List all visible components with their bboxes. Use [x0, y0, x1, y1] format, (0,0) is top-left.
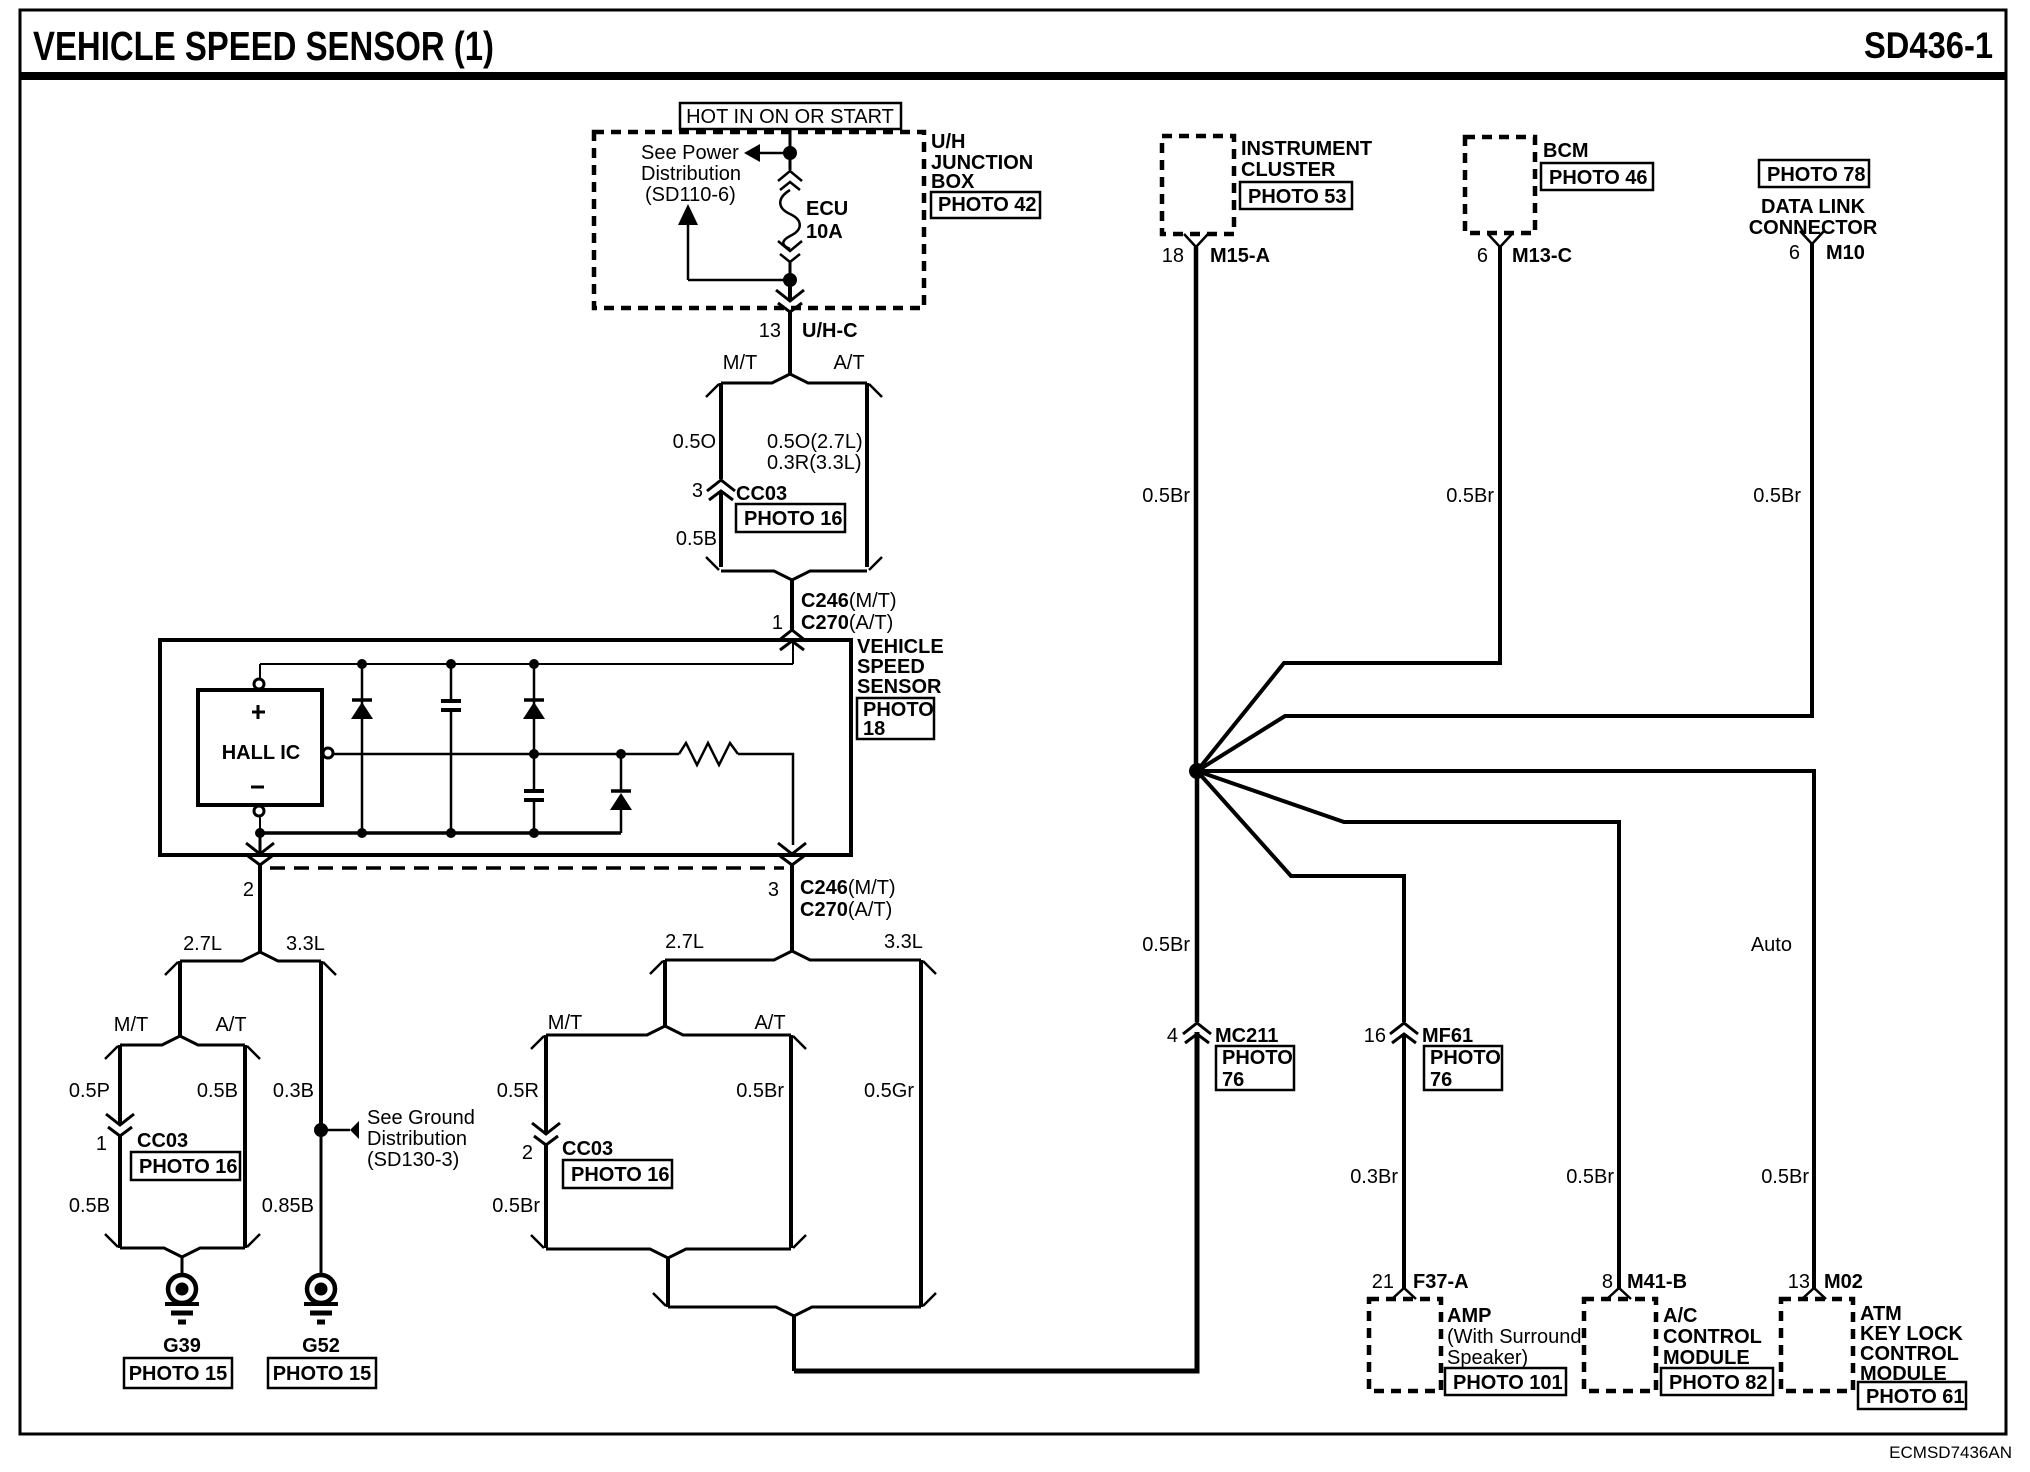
svg-text:See Ground: See Ground — [367, 1107, 475, 1129]
U/H junction box dashed outline — [594, 132, 924, 308]
svg-text:0.5Br: 0.5Br — [1566, 1166, 1614, 1188]
connector V F37-A — [1392, 1288, 1416, 1299]
merge M/T / A/T to connector 1 — [721, 571, 792, 580]
svg-text:M10: M10 — [1826, 242, 1865, 264]
svg-text:0.5O: 0.5O — [673, 431, 716, 453]
node bottom rail dot g — [357, 828, 367, 838]
svg-text:3: 3 — [692, 480, 703, 502]
wire M/T branch upper segment 0.5O — [719, 383, 723, 479]
node ground distribution dot — [314, 1123, 328, 1137]
svg-text:BCM: BCM — [1543, 140, 1589, 162]
svg-text:0.5Br: 0.5Br — [1753, 485, 1801, 507]
photo box PHOTO 76 (MF61) — [1424, 1046, 1502, 1090]
svg-text:0.5R: 0.5R — [497, 1080, 539, 1102]
wire sensor pin 3 down — [790, 865, 794, 951]
svg-text:PHOTO: PHOTO — [1222, 1047, 1293, 1069]
photo box PHOTO 101 — [1445, 1368, 1566, 1395]
connector V M13-C — [1488, 234, 1512, 247]
ATM key lock control module dashed box — [1781, 1299, 1853, 1391]
svg-text:0.5B: 0.5B — [676, 528, 717, 550]
internal bottom rail wire — [260, 831, 621, 835]
svg-text:A/T: A/T — [215, 1014, 246, 1036]
wire sensor pin 2 down — [258, 865, 262, 952]
wire U/H-C to M/T-A/T fork — [788, 312, 792, 374]
svg-text:C246(M/T): C246(M/T) — [801, 590, 897, 612]
svg-text:C270(A/T): C270(A/T) — [801, 612, 893, 634]
fork 2.7L / 3.3L (middle) — [665, 951, 792, 960]
fork M/T / A/T (left) — [120, 1036, 180, 1045]
capacitor C2 line upper — [533, 754, 536, 790]
svg-text:M41-B: M41-B — [1627, 1271, 1687, 1293]
svg-text:PHOTO 46: PHOTO 46 — [1549, 167, 1648, 189]
svg-text:0.5Br: 0.5Br — [492, 1195, 540, 1217]
wire M/T 0.5R segment — [544, 1035, 548, 1133]
svg-text:CONTROL: CONTROL — [1663, 1326, 1762, 1348]
diode D3 symbol — [611, 789, 631, 793]
svg-text:G39: G39 — [163, 1335, 201, 1357]
svg-text:MODULE: MODULE — [1663, 1347, 1750, 1369]
connector 2 CC03 chevrons — [532, 1123, 560, 1134]
hall IC labels + / HALL IC / - — [252, 711, 265, 714]
svg-text:2: 2 — [522, 1142, 533, 1164]
svg-text:M02: M02 — [1824, 1271, 1863, 1293]
svg-text:13: 13 — [1788, 1271, 1810, 1293]
wire A/T branch (0.5O/0.3R) — [865, 383, 869, 567]
node top rail dot c — [529, 659, 539, 669]
connector V M02 — [1802, 1288, 1826, 1299]
wire branch to AMP via MF61 — [1197, 771, 1404, 1022]
ground G52 symbol — [307, 1275, 335, 1303]
resistor R1 zigzag — [679, 743, 738, 765]
svg-text:PHOTO 42: PHOTO 42 — [938, 194, 1037, 216]
svg-text:1: 1 — [96, 1133, 107, 1155]
connector 13 U/H-C double chevron — [776, 290, 804, 301]
merge 2.7L / 3.3L (middle) — [668, 1307, 794, 1316]
svg-text:0.3R(3.3L): 0.3R(3.3L) — [767, 452, 862, 474]
wire merged 2.7L down — [666, 1258, 670, 1307]
svg-text:3: 3 — [768, 879, 779, 901]
svg-text:CC03: CC03 — [562, 1138, 613, 1160]
svg-text:0.3B: 0.3B — [273, 1080, 314, 1102]
photo box PHOTO 46 — [1541, 163, 1653, 190]
svg-text:Speaker): Speaker) — [1447, 1347, 1528, 1369]
diode D3 line lower — [620, 810, 623, 833]
node junction-box lower dot — [783, 273, 797, 287]
svg-text:10A: 10A — [806, 221, 843, 243]
svg-text:VEHICLE: VEHICLE — [857, 636, 944, 658]
wire M/T 0.5Br segment — [544, 1145, 548, 1248]
wire A/T 0.5Br branch (middle) — [789, 1035, 793, 1248]
fuse ECU 10A (wavy symbol with chevrons) — [789, 153, 792, 170]
diode D2 line — [533, 664, 536, 754]
wire to ground G39 — [181, 1257, 184, 1276]
photo box PHOTO 18 — [857, 698, 934, 739]
svg-text:M/T: M/T — [548, 1012, 582, 1034]
fork M/T / A/T (upper) — [721, 374, 790, 383]
svg-text:CLUSTER: CLUSTER — [1241, 159, 1336, 181]
svg-text:F37-A: F37-A — [1413, 1271, 1469, 1293]
wire sensor signal trunk down — [792, 1316, 796, 1371]
svg-text:CC03: CC03 — [736, 483, 787, 505]
svg-text:PHOTO 15: PHOTO 15 — [273, 1363, 372, 1385]
svg-text:MF61: MF61 — [1422, 1025, 1473, 1047]
svg-text:2.7L: 2.7L — [183, 933, 222, 955]
svg-text:VEHICLE SPEED SENSOR (1): VEHICLE SPEED SENSOR (1) — [33, 23, 494, 69]
svg-text:0.3Br: 0.3Br — [1350, 1166, 1398, 1188]
wire branch to A/C control module — [1197, 771, 1619, 1288]
instrument cluster dashed box — [1162, 136, 1234, 234]
svg-text:SENSOR: SENSOR — [857, 676, 942, 698]
svg-text:PHOTO 61: PHOTO 61 — [1866, 1386, 1965, 1408]
diode D2 symbol — [524, 698, 544, 702]
svg-text:ATM: ATM — [1860, 1303, 1902, 1325]
svg-text:U/H: U/H — [931, 131, 965, 153]
capacitor C2 line lower — [533, 800, 536, 833]
photo box PHOTO 61 — [1858, 1382, 1966, 1409]
svg-text:3.3L: 3.3L — [884, 931, 923, 953]
capacitor C1 line upper — [450, 664, 453, 700]
hall IC box — [198, 690, 322, 805]
svg-text:0.5Br: 0.5Br — [1142, 934, 1190, 956]
svg-text:PHOTO 16: PHOTO 16 — [139, 1156, 238, 1178]
svg-text:PHOTO 82: PHOTO 82 — [1669, 1372, 1768, 1394]
svg-text:SD436-1: SD436-1 — [1864, 25, 1993, 66]
fork M/T / A/T (middle) — [546, 1026, 665, 1035]
svg-text:21: 21 — [1372, 1271, 1394, 1293]
svg-text:(With Surround: (With Surround — [1447, 1326, 1582, 1348]
svg-text:PHOTO 15: PHOTO 15 — [129, 1363, 228, 1385]
sensor pin 1 chevrons — [778, 630, 806, 641]
svg-text:76: 76 — [1430, 1069, 1452, 1091]
svg-text:A/T: A/T — [833, 352, 864, 374]
wire M/T 0.5P segment — [118, 1045, 122, 1124]
internal middle rail wire — [332, 753, 679, 756]
wire merge to sensor pin 1 — [790, 580, 794, 631]
wire hall top pin to top rail — [259, 664, 261, 680]
hall IC top pin circle — [254, 679, 264, 689]
svg-text:M/T: M/T — [723, 352, 757, 374]
svg-text:MC211: MC211 — [1215, 1025, 1278, 1047]
svg-text:CC03: CC03 — [137, 1130, 188, 1152]
node middle rail dot e — [616, 749, 626, 759]
svg-text:SPEED: SPEED — [857, 656, 925, 678]
wire lower dot to return arrow — [688, 279, 790, 282]
wire sensor signal trunk horizontal — [794, 1032, 1197, 1371]
svg-text:KEY LOCK: KEY LOCK — [1860, 1323, 1964, 1345]
svg-text:0.5B: 0.5B — [197, 1080, 238, 1102]
wire MF61 to F37-A — [1402, 1034, 1406, 1288]
svg-text:1: 1 — [772, 612, 783, 634]
svg-text:PHOTO 78: PHOTO 78 — [1767, 164, 1866, 186]
svg-text:DATA LINK: DATA LINK — [1761, 196, 1866, 218]
svg-text:PHOTO 16: PHOTO 16 — [744, 508, 843, 530]
svg-text:CONTROL: CONTROL — [1860, 1343, 1959, 1365]
wire branch to ATM key lock module — [1197, 771, 1814, 1288]
svg-text:M15-A: M15-A — [1210, 245, 1270, 267]
connector V M10 — [1800, 231, 1824, 244]
wire M15-A vertical — [1194, 247, 1199, 771]
node bottom rail dot f — [255, 828, 265, 838]
wire hall bottom pin to bottom rail — [259, 815, 261, 833]
wire branch to data link connector — [1197, 244, 1812, 771]
svg-text:(SD130-3): (SD130-3) — [367, 1149, 459, 1171]
fork 2.7L / 3.3L (left) — [180, 952, 260, 961]
hall IC bottom pin circle — [254, 806, 264, 816]
svg-text:2: 2 — [243, 879, 254, 901]
svg-text:PHOTO 16: PHOTO 16 — [571, 1164, 670, 1186]
svg-text:INSTRUMENT: INSTRUMENT — [1241, 138, 1372, 160]
wire from HOT box into junction box — [789, 129, 792, 153]
svg-text:0.5Gr: 0.5Gr — [864, 1080, 914, 1102]
svg-text:0.85B: 0.85B — [262, 1195, 314, 1217]
svg-text:Distribution: Distribution — [641, 163, 741, 185]
photo box PHOTO 15 (G39) — [124, 1358, 232, 1388]
svg-text:18: 18 — [1162, 245, 1184, 267]
diode D3 line upper — [620, 754, 623, 790]
svg-text:8: 8 — [1602, 1271, 1613, 1293]
BCM dashed box — [1465, 137, 1535, 233]
internal top rail wire — [260, 663, 793, 665]
see-power-distribution arrow (left) — [759, 152, 790, 155]
photo box PHOTO 16 (left) — [131, 1152, 240, 1180]
svg-text:G52: G52 — [302, 1335, 340, 1357]
connector 16 MF61 chevrons — [1390, 1023, 1418, 1034]
wire 2.7L branch down (left) — [178, 961, 182, 1036]
svg-text:13: 13 — [759, 320, 781, 342]
merge M/T / A/T to ground G39 — [120, 1248, 182, 1257]
connector V M41-B — [1607, 1288, 1631, 1299]
svg-text:2.7L: 2.7L — [665, 931, 704, 953]
svg-text:0.5B: 0.5B — [69, 1195, 110, 1217]
connector V M15-A — [1184, 234, 1208, 247]
svg-text:ECU: ECU — [806, 198, 848, 220]
title separator thick rule — [20, 72, 2006, 80]
wire 3.3L 0.85B segment — [320, 1130, 323, 1276]
wire junction box exit — [788, 280, 792, 300]
svg-text:HOT IN ON OR START: HOT IN ON OR START — [686, 106, 894, 128]
photo box PHOTO 82 — [1661, 1368, 1773, 1395]
svg-text:(SD110-6): (SD110-6) — [645, 184, 736, 206]
svg-text:CONNECTOR: CONNECTOR — [1749, 217, 1878, 239]
merge M/T / A/T (middle) — [546, 1249, 668, 1258]
svg-text:6: 6 — [1789, 242, 1800, 264]
svg-text:A/T: A/T — [754, 1012, 785, 1034]
connector 1 CC03 chevrons — [106, 1114, 134, 1125]
svg-text:18: 18 — [863, 718, 885, 740]
sensor pin 3 chevrons — [778, 843, 806, 854]
svg-text:M/T: M/T — [114, 1014, 148, 1036]
photo box PHOTO 53 — [1240, 182, 1352, 209]
wire M/T 0.5B segment — [118, 1136, 122, 1248]
svg-text:A/C: A/C — [1663, 1305, 1697, 1327]
svg-text:M13-C: M13-C — [1512, 245, 1572, 267]
node top rail dot a — [357, 659, 367, 669]
node top rail dot b — [446, 659, 456, 669]
capacitor C2 symbol — [524, 789, 544, 793]
wire pin1 internal drop — [792, 643, 794, 664]
connector 4 MC211 chevrons — [1183, 1023, 1211, 1034]
svg-text:BOX: BOX — [931, 171, 975, 193]
see-ground-distribution arrow — [321, 1129, 350, 1132]
svg-text:0.5P: 0.5P — [69, 1080, 110, 1102]
svg-text:0.5Br: 0.5Br — [1142, 485, 1190, 507]
diode D1 line — [361, 664, 364, 833]
wire M/T branch lower segment 0.5B — [719, 491, 723, 567]
label box HOT IN ON OR START — [680, 103, 901, 129]
svg-text:See Power: See Power — [641, 142, 739, 164]
wire branch to BCM (diagonal+horiz) — [1197, 247, 1500, 771]
photo box PHOTO 76 (MC211) — [1216, 1046, 1294, 1090]
svg-text:6: 6 — [1477, 245, 1488, 267]
node junction-box upper dot — [783, 146, 797, 160]
svg-text:C246(M/T): C246(M/T) — [800, 877, 896, 899]
node distribution junction dot — [1189, 763, 1205, 779]
svg-text:PHOTO 53: PHOTO 53 — [1248, 186, 1347, 208]
capacitor C1 line lower — [450, 710, 453, 833]
hall IC right pin circle — [323, 748, 333, 758]
vehicle speed sensor box outline — [160, 640, 851, 855]
wire A/T 0.5B branch (left) — [243, 1045, 247, 1248]
svg-text:PHOTO: PHOTO — [1430, 1047, 1501, 1069]
svg-text:ECMSD7436AN: ECMSD7436AN — [1889, 1443, 2012, 1462]
svg-text:0.5Br: 0.5Br — [1446, 485, 1494, 507]
ground G39 symbol — [168, 1275, 196, 1303]
svg-text:Auto: Auto — [1751, 934, 1792, 956]
node bottom rail dot i — [529, 828, 539, 838]
photo box PHOTO 15 (G52) — [268, 1358, 376, 1388]
connector 3 CC03 chevrons — [707, 480, 735, 491]
svg-text:C270(A/T): C270(A/T) — [800, 899, 892, 921]
photo box PHOTO 78 — [1759, 160, 1869, 187]
node middle rail dot d — [529, 749, 539, 759]
svg-text:Distribution: Distribution — [367, 1128, 467, 1150]
svg-text:4: 4 — [1167, 1025, 1178, 1047]
svg-text:16: 16 — [1364, 1025, 1386, 1047]
svg-text:0.5O(2.7L): 0.5O(2.7L) — [767, 431, 863, 453]
svg-text:3.3L: 3.3L — [286, 933, 325, 955]
svg-text:HALL IC: HALL IC — [222, 742, 301, 764]
svg-text:76: 76 — [1222, 1069, 1244, 1091]
photo box PHOTO 16 (middle) — [563, 1160, 672, 1188]
diode D1 symbol — [352, 698, 372, 702]
sensor pin 2 chevrons — [259, 833, 262, 854]
A/C control module dashed box — [1584, 1299, 1656, 1391]
wire junction to MC211 connector — [1195, 771, 1200, 1022]
harness dashed boundary line — [270, 866, 784, 870]
wire 3.3L 0.3B segment — [319, 961, 323, 1130]
photo box PHOTO 16 (upper) — [736, 504, 845, 532]
wire 3.3L 0.5Gr branch — [919, 960, 923, 1307]
node bottom rail dot h — [446, 828, 456, 838]
svg-text:AMP: AMP — [1447, 1305, 1491, 1327]
svg-text:0.5Br: 0.5Br — [736, 1080, 784, 1102]
return arrow up inside junction box — [687, 222, 690, 280]
wire 2.7L branch down (middle) — [663, 960, 667, 1026]
svg-text:0.5Br: 0.5Br — [1761, 1166, 1809, 1188]
photo box PHOTO 42 — [931, 192, 1040, 218]
svg-text:PHOTO 101: PHOTO 101 — [1453, 1372, 1563, 1394]
AMP dashed box — [1369, 1299, 1441, 1391]
wire resistor to pin 3 drop — [738, 754, 793, 845]
svg-text:U/H-C: U/H-C — [802, 320, 858, 342]
capacitor C1 symbol — [441, 699, 461, 703]
